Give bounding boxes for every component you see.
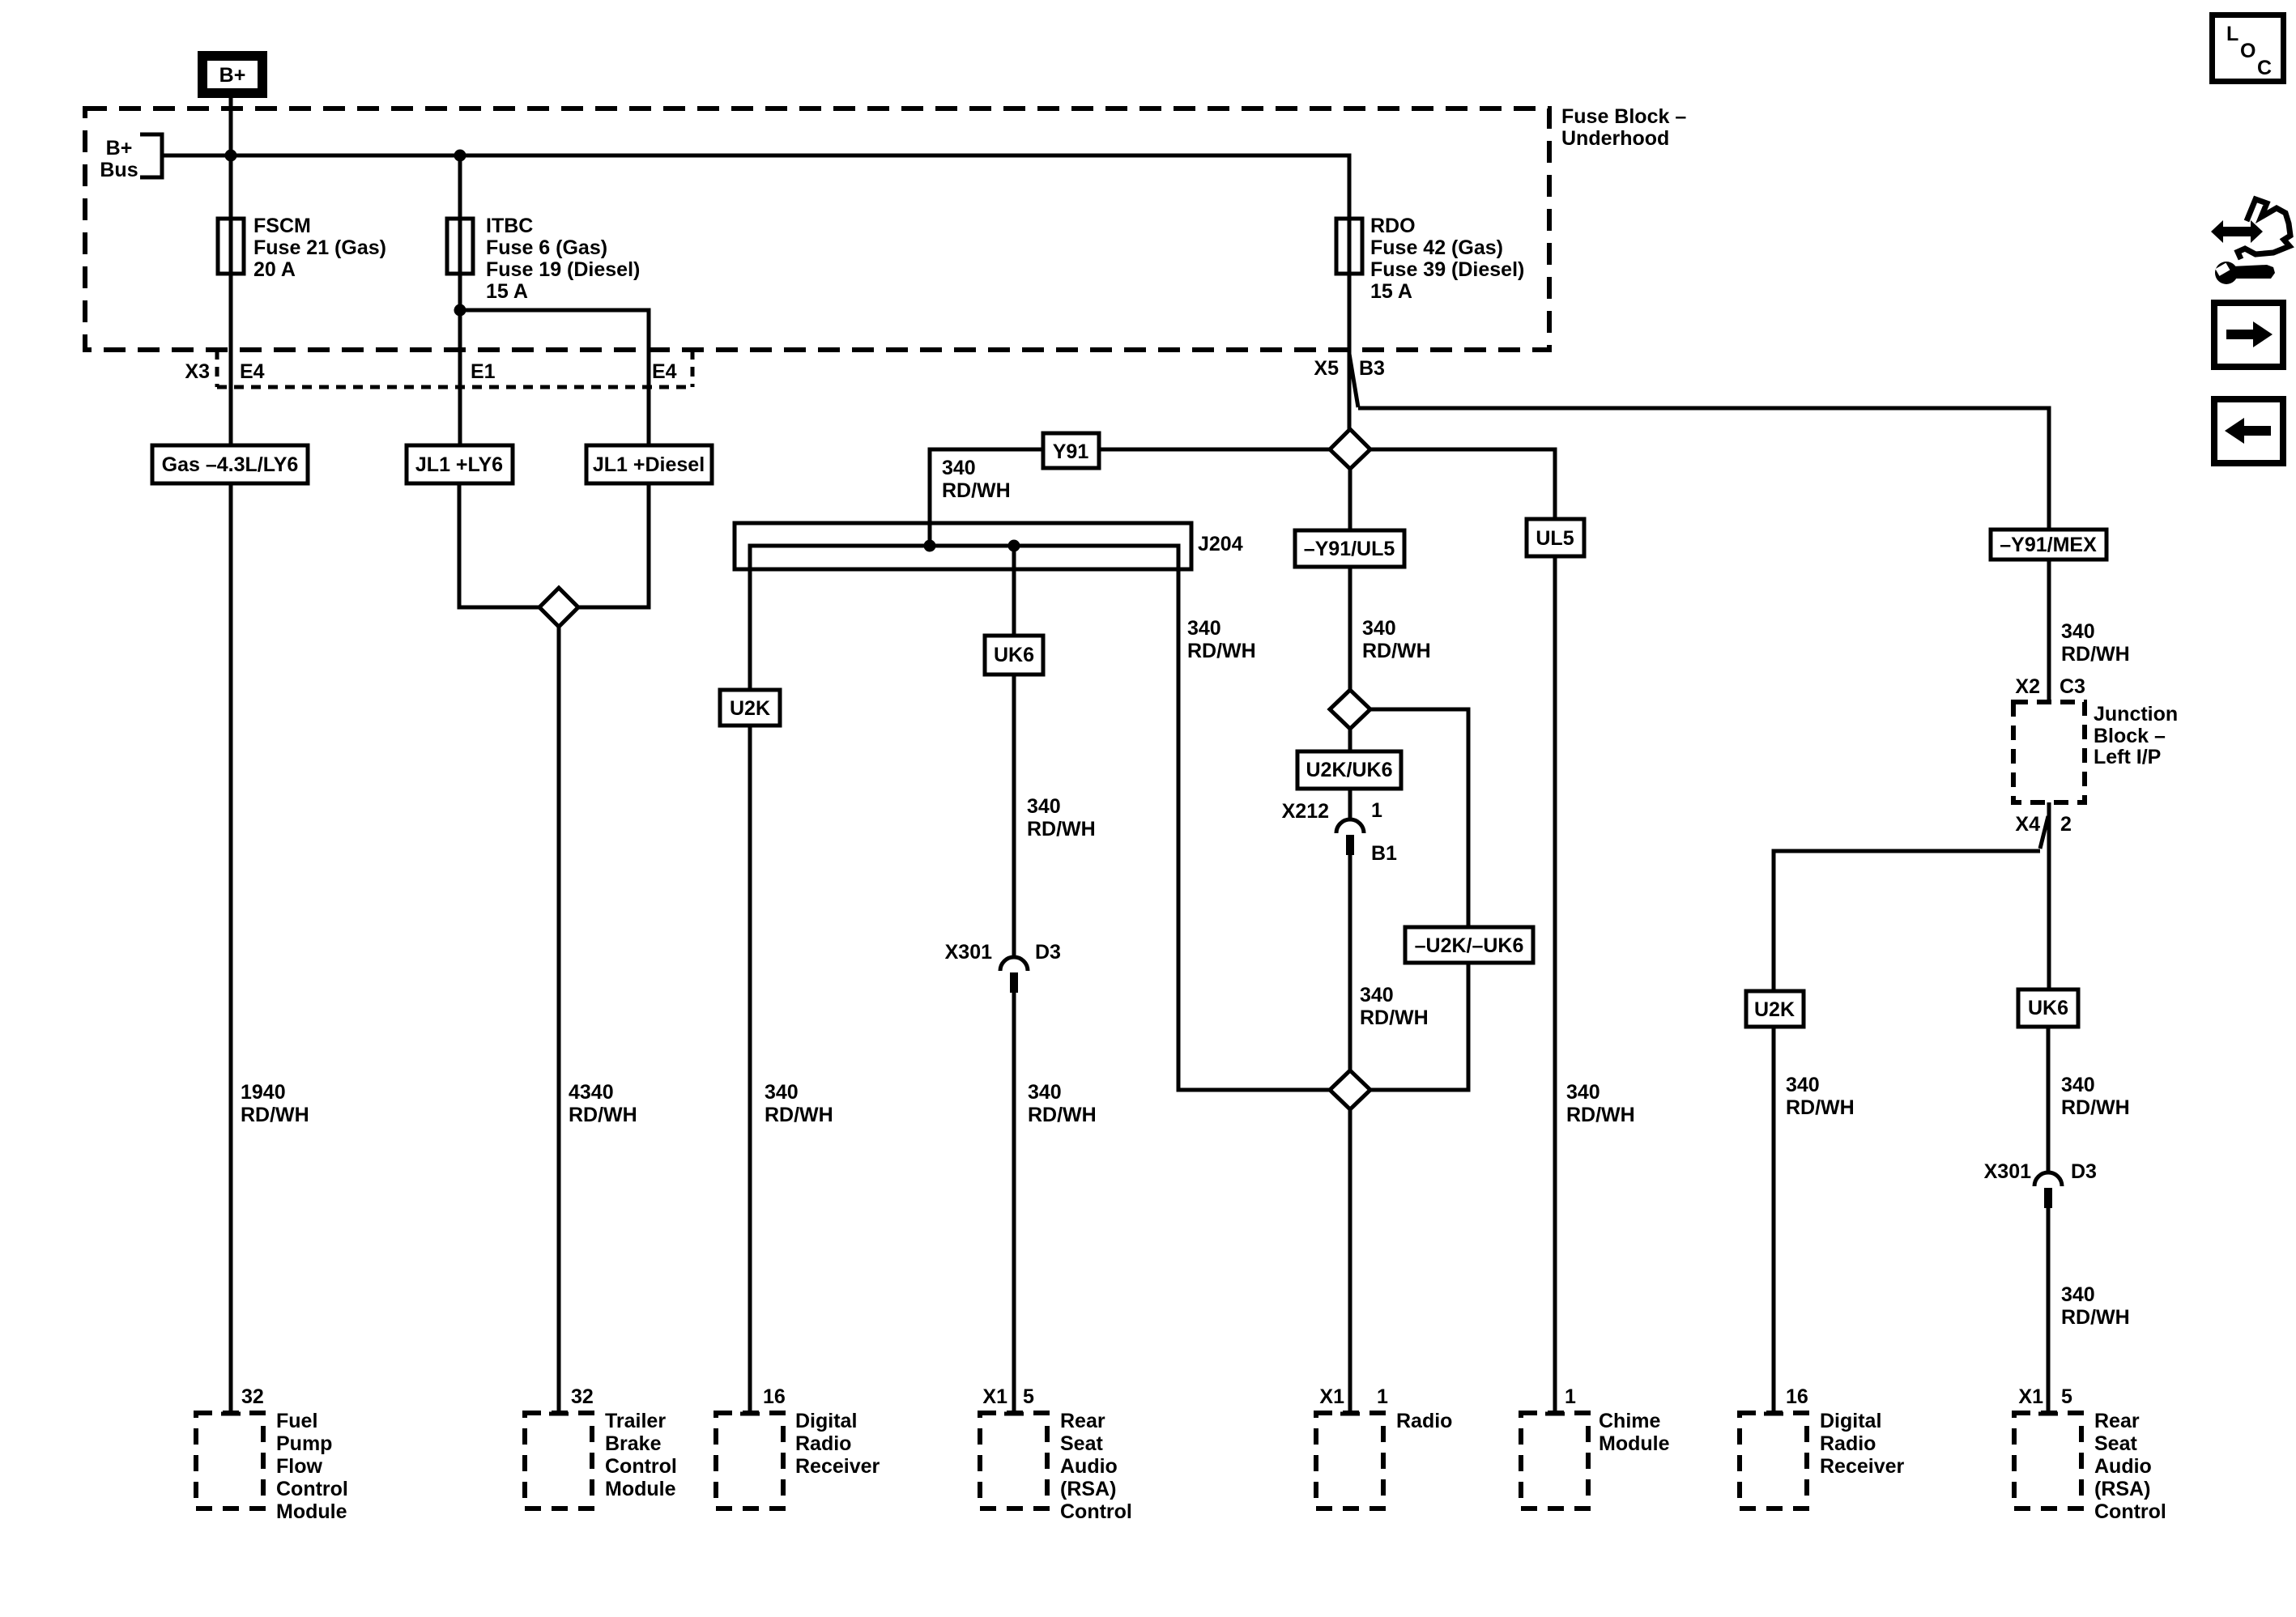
svg-text:RD/WH: RD/WH <box>942 479 1011 502</box>
svg-text:340: 340 <box>1027 795 1061 818</box>
connector row dashed outline <box>215 350 219 387</box>
in-line connector X212 pin 1 / B1 <box>1336 819 1364 833</box>
svg-text:–Y91/MEX: –Y91/MEX <box>2000 534 2097 556</box>
wire diamond 2 to U2K/UK6 <box>1348 729 1352 820</box>
svg-text:RD/WH: RD/WH <box>1362 640 1431 662</box>
junction dot ITBC branch <box>454 304 466 317</box>
pin stub chime module <box>1545 1412 1565 1416</box>
svg-text:Receiver: Receiver <box>795 1455 880 1478</box>
svg-text:5: 5 <box>1023 1385 1034 1408</box>
svg-text:Control: Control <box>276 1478 348 1500</box>
fuse FSCM <box>218 219 244 274</box>
wire branch to diesel column <box>460 310 649 445</box>
pin stub digital radio receiver right <box>1764 1412 1783 1416</box>
svg-text:RDO: RDO <box>1370 215 1416 237</box>
svg-text:RD/WH: RD/WH <box>1027 818 1096 840</box>
option box -Y91/MEX <box>1991 530 2106 560</box>
svg-text:C: C <box>2257 57 2272 79</box>
svg-text:B3: B3 <box>1359 357 1385 380</box>
splice pack J204 outer shell <box>735 523 1191 569</box>
svg-text:Trailer: Trailer <box>605 1410 666 1432</box>
svg-text:Fuse 19 (Diesel): Fuse 19 (Diesel) <box>486 258 640 281</box>
svg-text:4340: 4340 <box>569 1081 614 1104</box>
splice diamond 3 <box>1330 1070 1370 1109</box>
svg-text:U2K/UK6: U2K/UK6 <box>1306 759 1393 781</box>
svg-text:D3: D3 <box>2071 1160 2097 1183</box>
fuse block underhood boundary (dashed) <box>85 109 1549 350</box>
module Rear Seat Audio (RSA) Control right (dashed) <box>2014 1413 2081 1508</box>
svg-text:O: O <box>2240 40 2256 62</box>
svg-text:Block –: Block – <box>2094 725 2166 747</box>
wire X301 to rear seat audio right <box>2047 1208 2051 1413</box>
svg-text:Junction: Junction <box>2094 703 2178 726</box>
svg-text:X1: X1 <box>982 1385 1007 1408</box>
pin stub radio <box>1340 1412 1360 1416</box>
icon arrow right box <box>2214 303 2283 367</box>
svg-text:Gas –4.3L/LY6: Gas –4.3L/LY6 <box>162 453 299 476</box>
svg-text:340: 340 <box>942 457 976 479</box>
junction dot ITBC tap on bus <box>454 150 466 162</box>
module Fuel Pump Flow Control Module (dashed) <box>196 1413 263 1508</box>
svg-text:Audio: Audio <box>1060 1455 1118 1478</box>
junction dot J204 Y91 feed <box>924 540 936 552</box>
wire Y91 branch from splice 1 <box>930 449 1330 546</box>
wire splice 3 to radio <box>1348 1109 1352 1413</box>
option box JL1 +Diesel <box>586 445 712 483</box>
svg-text:Bus: Bus <box>100 159 138 181</box>
svg-text:15 A: 15 A <box>1370 280 1412 303</box>
svg-text:340: 340 <box>2061 1074 2095 1096</box>
svg-text:Radio: Radio <box>795 1432 851 1455</box>
svg-text:D3: D3 <box>1035 941 1061 964</box>
svg-text:RD/WH: RD/WH <box>241 1104 309 1126</box>
svg-text:Control: Control <box>1060 1500 1132 1523</box>
svg-text:UL5: UL5 <box>1536 527 1574 550</box>
svg-text:1: 1 <box>1377 1385 1388 1408</box>
svg-text:FSCM: FSCM <box>253 215 311 237</box>
svg-text:Left I/P: Left I/P <box>2094 746 2161 768</box>
module Digital Radio Receiver right (dashed) <box>1740 1413 1807 1508</box>
svg-text:RD/WH: RD/WH <box>1566 1104 1635 1126</box>
svg-text:E4: E4 <box>240 360 265 383</box>
svg-text:RD/WH: RD/WH <box>2061 643 2130 666</box>
in-line connector X301 D3 (right) <box>2034 1172 2062 1186</box>
fuse RDO <box>1336 219 1362 274</box>
wire JL1 Diesel to splice diamond <box>578 483 649 607</box>
icon power distribution (arrow + outline + wrench) <box>2211 199 2290 284</box>
option box U2K (right) <box>1746 991 1804 1027</box>
svg-text:Fuel: Fuel <box>276 1410 317 1432</box>
pin stub rear seat audio <box>1004 1412 1024 1416</box>
svg-text:340: 340 <box>1786 1074 1820 1096</box>
svg-text:Module: Module <box>276 1500 347 1523</box>
svg-text:Y91: Y91 <box>1053 440 1089 463</box>
junction block left I/P (dashed) <box>2013 702 2085 802</box>
option box U2K <box>720 690 780 726</box>
wire JL1 LY6 to splice diamond <box>459 483 539 607</box>
svg-text:16: 16 <box>763 1385 786 1408</box>
svg-text:Brake: Brake <box>605 1432 662 1455</box>
option box Gas -4.3L/LY6 <box>152 445 308 483</box>
svg-text:Underhood: Underhood <box>1561 127 1669 150</box>
wire B+ bus <box>162 155 1349 429</box>
svg-text:Control: Control <box>2094 1500 2166 1523</box>
svg-text:Pump: Pump <box>276 1432 332 1455</box>
svg-text:340: 340 <box>1360 984 1394 1006</box>
svg-text:RD/WH: RD/WH <box>765 1104 833 1126</box>
svg-text:Seat: Seat <box>1060 1432 1103 1455</box>
svg-text:340: 340 <box>1362 617 1396 640</box>
svg-text:RD/WH: RD/WH <box>2061 1096 2130 1119</box>
svg-text:J204: J204 <box>1198 533 1243 555</box>
svg-text:U2K: U2K <box>1754 998 1795 1021</box>
svg-text:X1: X1 <box>2018 1385 2043 1408</box>
svg-text:340: 340 <box>2061 620 2095 643</box>
svg-text:Rear: Rear <box>1060 1410 1105 1432</box>
svg-text:B1: B1 <box>1371 842 1397 865</box>
svg-text:X301: X301 <box>945 941 992 964</box>
svg-text:Chime: Chime <box>1599 1410 1661 1432</box>
svg-text:Receiver: Receiver <box>1820 1455 1905 1478</box>
svg-text:(RSA): (RSA) <box>1060 1478 1116 1500</box>
icon arrow left box <box>2214 399 2283 463</box>
B+ bus bracket <box>140 134 162 177</box>
module Digital Radio Receiver (dashed) <box>716 1413 783 1508</box>
svg-text:RD/WH: RD/WH <box>1028 1104 1097 1126</box>
svg-text:JL1 +LY6: JL1 +LY6 <box>415 453 503 476</box>
svg-text:RD/WH: RD/WH <box>1360 1006 1429 1029</box>
svg-text:Audio: Audio <box>2094 1455 2152 1478</box>
option box -U2K/-UK6 <box>1405 927 1533 963</box>
svg-text:1: 1 <box>1565 1385 1576 1408</box>
svg-text:Module: Module <box>1599 1432 1670 1455</box>
module Radio (dashed) <box>1316 1413 1383 1508</box>
svg-text:Flow: Flow <box>276 1455 322 1478</box>
svg-text:RD/WH: RD/WH <box>2061 1306 2130 1329</box>
svg-text:Radio: Radio <box>1396 1410 1452 1432</box>
svg-text:Control: Control <box>605 1455 677 1478</box>
svg-text:Digital: Digital <box>1820 1410 1881 1432</box>
module Chime Module (dashed) <box>1521 1413 1588 1508</box>
in-line connector X301 D3 (RSA column) <box>1000 957 1028 971</box>
svg-text:340: 340 <box>1187 617 1221 640</box>
svg-text:C3: C3 <box>2060 675 2085 698</box>
wire splice 1 to -Y91/UL5 <box>1348 469 1352 690</box>
power terminal B+ <box>202 56 262 93</box>
module Rear Seat Audio (RSA) Control (dashed) <box>980 1413 1047 1508</box>
wire junction block down to UK6 <box>2047 802 2051 989</box>
splice pack J204 internal bus with drops <box>750 546 1330 1090</box>
pin stub digital radio receiver <box>740 1412 760 1416</box>
pin stub rear seat audio right <box>2038 1412 2058 1416</box>
option box JL1 +LY6 <box>407 445 513 483</box>
junction dot B+ feed on bus <box>225 150 237 162</box>
svg-text:RD/WH: RD/WH <box>1786 1096 1855 1119</box>
svg-text:Fuse 39 (Diesel): Fuse 39 (Diesel) <box>1370 258 1524 281</box>
option box UL5 <box>1527 519 1584 556</box>
svg-text:1940: 1940 <box>241 1081 286 1104</box>
svg-text:Rear: Rear <box>2094 1410 2140 1432</box>
svg-text:X212: X212 <box>1282 800 1329 823</box>
splice diamond 1 below RDO <box>1330 429 1370 469</box>
svg-text:Fuse 42 (Gas): Fuse 42 (Gas) <box>1370 236 1503 259</box>
module Trailer Brake Control Module (dashed) <box>525 1413 592 1508</box>
svg-text:Fuse 6 (Gas): Fuse 6 (Gas) <box>486 236 607 259</box>
svg-text:16: 16 <box>1786 1385 1808 1408</box>
svg-text:(RSA): (RSA) <box>2094 1478 2150 1500</box>
svg-text:Fuse Block –: Fuse Block – <box>1561 105 1686 128</box>
wire UK6 to X301 <box>2047 1027 2051 1172</box>
svg-text:E1: E1 <box>471 360 496 383</box>
option box UK6 <box>985 636 1043 674</box>
wire X4 diagonal branch <box>2040 816 2048 849</box>
svg-text:Radio: Radio <box>1820 1432 1876 1455</box>
svg-text:5: 5 <box>2061 1385 2072 1408</box>
svg-text:Fuse 21 (Gas): Fuse 21 (Gas) <box>253 236 386 259</box>
pin stub fuel pump module <box>221 1412 241 1416</box>
wire U2K column from J204 <box>748 690 752 1413</box>
svg-text:X1: X1 <box>1319 1385 1344 1408</box>
splice diamond JL1 <box>539 588 578 627</box>
svg-text:340: 340 <box>1028 1081 1062 1104</box>
wire loop right of diamond 2 <box>1370 709 1468 1090</box>
wire to rear seat audio control <box>1012 993 1016 1413</box>
option box U2K/UK6 <box>1297 751 1401 789</box>
svg-text:15 A: 15 A <box>486 280 528 303</box>
svg-text:U2K: U2K <box>730 697 770 720</box>
svg-text:1: 1 <box>1371 799 1382 822</box>
pin stub trailer brake module <box>549 1412 569 1416</box>
svg-text:B+: B+ <box>106 137 133 160</box>
junction dot J204 UK6 drop <box>1008 540 1020 552</box>
svg-text:340: 340 <box>765 1081 799 1104</box>
wire ITBC column <box>458 155 462 445</box>
svg-text:L: L <box>2226 23 2238 45</box>
wire UK6 column from J204 <box>1012 546 1016 957</box>
svg-text:32: 32 <box>241 1385 264 1408</box>
svg-text:X5: X5 <box>1314 357 1339 380</box>
svg-text:–Y91/UL5: –Y91/UL5 <box>1304 538 1395 560</box>
wire X212 to splice diamond 3 <box>1348 855 1352 1070</box>
svg-text:Seat: Seat <box>2094 1432 2137 1455</box>
svg-text:JL1 +Diesel: JL1 +Diesel <box>593 453 705 476</box>
option box Y91 <box>1043 433 1099 468</box>
svg-text:Module: Module <box>605 1478 676 1500</box>
wire U2K to digital radio receiver <box>1772 1027 1776 1413</box>
svg-text:20 A: 20 A <box>253 258 296 281</box>
wire 4340 RD/WH to trailer brake module <box>557 627 561 1413</box>
wire branch to -Y91/MEX <box>1358 408 2049 530</box>
fuse ITBC <box>447 219 473 274</box>
icon LOC box <box>2213 15 2284 82</box>
wire branch to U2K column <box>1774 851 2040 991</box>
wire splice 1 to UL5 <box>1370 449 1555 1413</box>
svg-text:Digital: Digital <box>795 1410 857 1432</box>
wire 1940 RD/WH to fuel pump module <box>229 483 233 1413</box>
wire -Y91/MEX to junction block <box>2047 560 2051 702</box>
option box UK6 (right) <box>2018 989 2078 1027</box>
svg-text:ITBC: ITBC <box>486 215 533 237</box>
wire X5/B3 diagonal branch <box>1349 354 1358 407</box>
svg-text:E4: E4 <box>652 360 677 383</box>
svg-text:X2: X2 <box>2015 675 2040 698</box>
svg-text:RD/WH: RD/WH <box>1187 640 1256 662</box>
svg-text:340: 340 <box>1566 1081 1600 1104</box>
svg-text:340: 340 <box>2061 1283 2095 1306</box>
svg-text:RD/WH: RD/WH <box>569 1104 637 1126</box>
svg-text:32: 32 <box>571 1385 594 1408</box>
svg-text:UK6: UK6 <box>994 644 1034 666</box>
option box -Y91/UL5 <box>1295 530 1404 567</box>
svg-text:B+: B+ <box>219 64 246 87</box>
svg-text:–U2K/–UK6: –U2K/–UK6 <box>1415 934 1524 957</box>
splice diamond 2 <box>1330 690 1370 729</box>
svg-text:X3: X3 <box>185 360 210 383</box>
svg-text:X301: X301 <box>1984 1160 2031 1183</box>
svg-text:UK6: UK6 <box>2028 997 2068 1019</box>
svg-text:2: 2 <box>2060 813 2072 836</box>
wire B+ feed down to bus <box>229 98 233 445</box>
svg-text:X4: X4 <box>2015 813 2040 836</box>
